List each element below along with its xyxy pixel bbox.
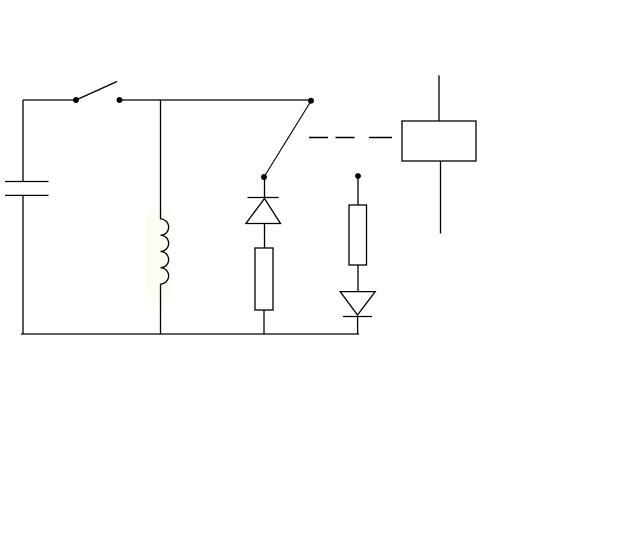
wire S2 pole to diode D1 — [264, 177, 266, 198]
highlighter mark behind inductor L1 — [146, 210, 170, 308]
capacitor C1 top plate — [5, 181, 49, 183]
diode D2 triangle — [340, 292, 375, 315]
wire R1 to bus — [263, 310, 265, 334]
wire R2 to D2 — [357, 265, 359, 292]
wire left vertical (bottom) — [22, 195, 24, 334]
relay coil K1 box — [402, 121, 476, 161]
capacitor C1 bottom plate — [5, 194, 49, 196]
bottom bus wire — [21, 333, 359, 335]
node S2 top contact — [308, 98, 314, 104]
dashed link segment 3 — [369, 137, 392, 139]
wire D2 to bus — [357, 317, 359, 335]
node R2 top terminal — [355, 173, 361, 179]
switch S1 blade — [76, 82, 117, 101]
dashed link segment 2 — [336, 137, 355, 139]
resistor R2 body — [349, 205, 367, 265]
diode D1 cathode bar — [248, 197, 279, 199]
diode D1 triangle — [246, 199, 281, 224]
dashed link segment 1 — [309, 137, 328, 139]
wire inductor branch bottom — [160, 284, 162, 334]
node S1 left contact — [73, 97, 79, 103]
switch S2 blade — [264, 101, 311, 177]
node S2 pole contact — [261, 174, 267, 180]
diode D2 cathode bar — [343, 316, 372, 318]
wire D1 to R1 — [264, 224, 266, 249]
wire node to R2 — [357, 176, 359, 205]
wire top-left horizontal — [23, 99, 76, 101]
wire inductor branch top — [160, 100, 162, 219]
wire relay top lead — [438, 75, 440, 121]
wire relay bottom lead — [440, 161, 442, 234]
inductor L1 coil — [161, 219, 169, 284]
node S1 right contact — [117, 97, 123, 103]
wire top horizontal (S1 to S2 node) — [120, 99, 312, 101]
wire left vertical (top) — [22, 100, 24, 182]
resistor R1 body — [255, 248, 273, 310]
